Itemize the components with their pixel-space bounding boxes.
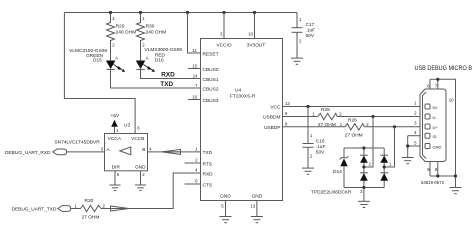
node ESD IO1 tap	[383, 165, 386, 168]
svg-text:U3: U3	[124, 122, 130, 128]
svg-text:CTS: CTS	[203, 182, 213, 188]
connector inner wall	[423, 92, 427, 159]
U4 pin 8 USBDP	[264, 121, 288, 130]
svg-text:50V: 50V	[316, 150, 325, 156]
U4 pin 10 3V3OUT label	[247, 32, 266, 49]
IC U3 SN74LVC1T45DBVR body	[54, 122, 147, 171]
node shell pin 8 junction	[436, 174, 439, 177]
svg-text:C17: C17	[306, 22, 315, 28]
U3 buffer triangle	[120, 147, 131, 155]
svg-text:B: B	[142, 147, 145, 153]
ground below U4 pin 5	[220, 217, 232, 223]
resistor R26	[340, 118, 370, 139]
wire DEBUG_UART_RXD to U3 A	[67, 151, 105, 153]
svg-text:CBUS0: CBUS0	[203, 67, 219, 73]
svg-text:D-: D-	[433, 115, 438, 120]
U4 pin 4 RXD	[195, 168, 213, 178]
ground below USB pins 4-5	[402, 158, 414, 164]
wire RXD net from D16 to U4 CBUS1	[141, 69, 201, 78]
resistor R29	[107, 13, 137, 61]
svg-text:SN74LVC1T45DBVR: SN74LVC1T45DBVR	[54, 139, 100, 145]
node shell pin 7 junction	[436, 78, 439, 81]
node shield junction	[454, 174, 457, 177]
svg-text:RED: RED	[155, 52, 166, 58]
svg-text:D+: D+	[433, 125, 439, 130]
svg-text:VCCB: VCCB	[131, 136, 144, 142]
ground below U3 DIR	[110, 185, 121, 190]
wire U3 B to U4 TXD	[148, 151, 201, 153]
ESD right column upper diode	[380, 148, 388, 188]
svg-text:16: 16	[192, 94, 197, 99]
port symbol DEBUG_UART_RXD	[53, 149, 67, 155]
node ID-GND junction	[406, 144, 409, 147]
svg-text:.1uF: .1uF	[316, 144, 326, 150]
node USBDM-ESD junction	[371, 115, 374, 118]
wire 3V3OUT stem pin 10	[254, 13, 256, 39]
wire R26 to USB pin 3	[364, 126, 420, 128]
svg-text:GND: GND	[252, 194, 263, 200]
svg-text:D14: D14	[333, 169, 342, 175]
wire ID to GND tie	[407, 136, 409, 158]
svg-text:11: 11	[193, 48, 198, 53]
USB shell pin 7 stub	[435, 79, 438, 89]
ESD diode array TPD2E2U06DCKR rails	[311, 148, 384, 196]
wire R25 to USB pin 2	[337, 116, 420, 118]
svg-text:50V: 50V	[306, 33, 315, 39]
svg-text:D16: D16	[155, 58, 164, 64]
USB pin 3 D+	[414, 121, 438, 130]
wire R20 to U4 RXD	[101, 173, 201, 209]
svg-text:14: 14	[193, 73, 198, 78]
svg-text:10: 10	[248, 32, 253, 37]
svg-text:U4: U4	[235, 88, 241, 94]
svg-text:VCCA: VCCA	[108, 136, 122, 142]
svg-text:DEBUG_UART_RXD: DEBUG_UART_RXD	[5, 150, 51, 156]
svg-text:12: 12	[285, 101, 290, 106]
node rail-RESET junction	[186, 11, 189, 14]
svg-text:R29: R29	[116, 24, 125, 30]
U4 pin 6 CTS stub	[185, 179, 213, 189]
USB shell pin 9 stub	[427, 162, 430, 177]
node ESD top rail junction	[362, 146, 365, 149]
ESD left column lower diode	[360, 173, 368, 181]
ESD right column lower diode	[380, 173, 388, 181]
resistor R25	[312, 107, 342, 128]
U4 pin 7 CBUS2	[195, 83, 219, 93]
LED D15	[69, 48, 125, 72]
power +5V symbol	[111, 113, 120, 133]
U4 pin 11 RESET	[193, 48, 219, 58]
wire USBDM drop to ESD IO2	[364, 117, 373, 168]
wire VCCIO stem pin 3	[223, 13, 225, 39]
U3 pin 3 A	[101, 147, 111, 153]
U4 pin 16 CBUS3 stub	[188, 94, 219, 104]
svg-text:A: A	[115, 56, 118, 61]
svg-text:GND: GND	[220, 194, 231, 200]
wire USBDP from U4 pin 8 to R26	[283, 126, 346, 128]
U4 pin 9 USBDM	[263, 111, 288, 120]
op IC U4 FT230XS-R body	[201, 39, 283, 201]
USB pin 4 ID stub	[408, 130, 437, 139]
ground below C16	[302, 168, 314, 174]
svg-text:ID: ID	[433, 134, 437, 139]
wire shell top to shield	[430, 79, 456, 176]
resistor R20	[75, 198, 106, 220]
ground below USB shield	[450, 188, 462, 194]
svg-text:10: 10	[449, 98, 454, 103]
svg-text:5V: 5V	[433, 105, 438, 110]
svg-text:VCCIO: VCCIO	[216, 42, 231, 48]
connector body outline	[420, 89, 446, 162]
wire VCC from U4 pin 12 to USB pin 1	[283, 106, 421, 108]
svg-text:240 OHM: 240 OHM	[116, 30, 137, 36]
U3 pin 2 GND	[135, 165, 146, 186]
USB pin 2 D-	[414, 110, 437, 119]
node rail-VCCIO junction	[222, 11, 225, 14]
svg-text:USBDP: USBDP	[264, 125, 281, 131]
svg-text:R26: R26	[348, 118, 357, 124]
ESD left column upper diode	[360, 148, 368, 188]
port symbol DEBUG_UART_TXD	[58, 206, 71, 212]
U4 pin 15 CBUS0 stub	[188, 63, 219, 73]
wire USBDP drop to ESD IO1	[384, 127, 394, 167]
svg-text:.1uF: .1uF	[306, 28, 316, 34]
USB pin 1 5V	[414, 100, 438, 109]
U4 pin 13 GND	[251, 194, 263, 217]
svg-text:TXD: TXD	[160, 81, 173, 88]
ESD pin 3 GND stem	[360, 188, 364, 202]
svg-text:R30: R30	[146, 24, 155, 30]
svg-text:USB DEBUG MICRO B: USB DEBUG MICRO B	[415, 66, 473, 72]
svg-text:3V3OUT: 3V3OUT	[247, 42, 266, 48]
wire RESET from rail to U4 pin 11	[188, 13, 201, 54]
node rail-3V3OUT junction	[253, 11, 256, 14]
U4 pin 1 TXD	[195, 147, 213, 157]
wire shell bottom to shield ground	[430, 176, 456, 188]
svg-text:R25: R25	[321, 107, 330, 113]
svg-text:27 OHM: 27 OHM	[345, 133, 363, 139]
svg-text:A: A	[146, 56, 149, 61]
svg-text:R20: R20	[85, 198, 94, 204]
wire USBDM from U4 pin 9 to R25	[283, 116, 318, 118]
U3 pin 4 B	[142, 147, 152, 153]
svg-text:240 OHM: 240 OHM	[146, 30, 167, 36]
svg-text:CBUS3: CBUS3	[203, 98, 219, 104]
U3 pin 6 VCCB	[131, 126, 144, 142]
svg-text:RTS: RTS	[203, 161, 213, 167]
svg-text:VLMS3000-GS08: VLMS3000-GS08	[145, 47, 183, 53]
svg-text:GND: GND	[135, 165, 146, 171]
resistor R30	[137, 13, 167, 61]
svg-text:USBDM: USBDM	[263, 115, 280, 121]
ground below U3 GND	[135, 185, 146, 190]
svg-text:RXD: RXD	[203, 171, 214, 177]
svg-text:VCC: VCC	[270, 105, 281, 111]
svg-text:13: 13	[251, 203, 256, 208]
USB shell pin 6 stub	[427, 79, 430, 89]
svg-text:GND: GND	[433, 144, 442, 149]
svg-text:CBUS1: CBUS1	[203, 77, 219, 83]
node rail-R30 junction	[139, 11, 142, 14]
wire left branch from rail to U3 VCCB	[64, 13, 135, 134]
svg-text:CBUS2: CBUS2	[203, 87, 219, 93]
node ESD bottom rail junction	[362, 186, 365, 189]
svg-text:TXD: TXD	[203, 150, 213, 156]
svg-text:TPD2E2U06DCKR: TPD2E2U06DCKR	[311, 190, 352, 196]
svg-text:DIR: DIR	[112, 165, 121, 171]
LED D16	[136, 47, 183, 72]
svg-text:FT230XS-R: FT230XS-R	[230, 93, 256, 99]
flow arrow on DEBUG_UART_TXD wire (points right)	[111, 206, 129, 211]
svg-text:D15: D15	[93, 58, 102, 64]
svg-text:27 OHM: 27 OHM	[82, 215, 100, 221]
U4 pin 14 CBUS1	[193, 73, 219, 83]
capacitor C16	[303, 107, 326, 169]
capacitor C17	[292, 13, 316, 59]
U4 pin 2 RTS stub	[185, 158, 213, 168]
svg-text:RXD: RXD	[161, 72, 175, 79]
flow arrow on TXD wire (points left)	[162, 149, 181, 154]
svg-text:DEBUG_UART_TXD: DEBUG_UART_TXD	[12, 206, 57, 212]
U4 pin 12 VCC	[270, 101, 290, 111]
node rail-R29 junction	[109, 11, 112, 14]
U4 pin 5 GND	[220, 194, 231, 217]
TVS zener D14	[333, 148, 348, 188]
node USBDP-ESD junction	[393, 125, 396, 128]
ground below ESD	[358, 201, 370, 207]
U4 pin 3 VCCIO label	[216, 32, 231, 49]
USB shell pin 8 stub	[435, 162, 438, 177]
U3 pin 5 DIR	[112, 165, 121, 186]
node ESD IO2 tap	[362, 165, 365, 168]
USB pin 5 GND stub	[408, 140, 442, 149]
svg-text:54819-0572: 54819-0572	[421, 180, 445, 185]
svg-text:C16: C16	[316, 139, 325, 145]
svg-text:15: 15	[192, 63, 197, 68]
wire port to R20	[71, 208, 81, 210]
ground below C17	[291, 58, 303, 64]
svg-text:+5V: +5V	[111, 113, 120, 119]
node VCC-C16 junction	[306, 105, 309, 108]
wire 3V3 top rail	[64, 12, 297, 14]
svg-text:RESET: RESET	[203, 52, 219, 58]
ground below U4 pin 13	[251, 217, 263, 223]
wire TXD net from D15 to U4 CBUS2	[111, 69, 201, 88]
U3 pin 1 VCCA	[108, 128, 122, 142]
